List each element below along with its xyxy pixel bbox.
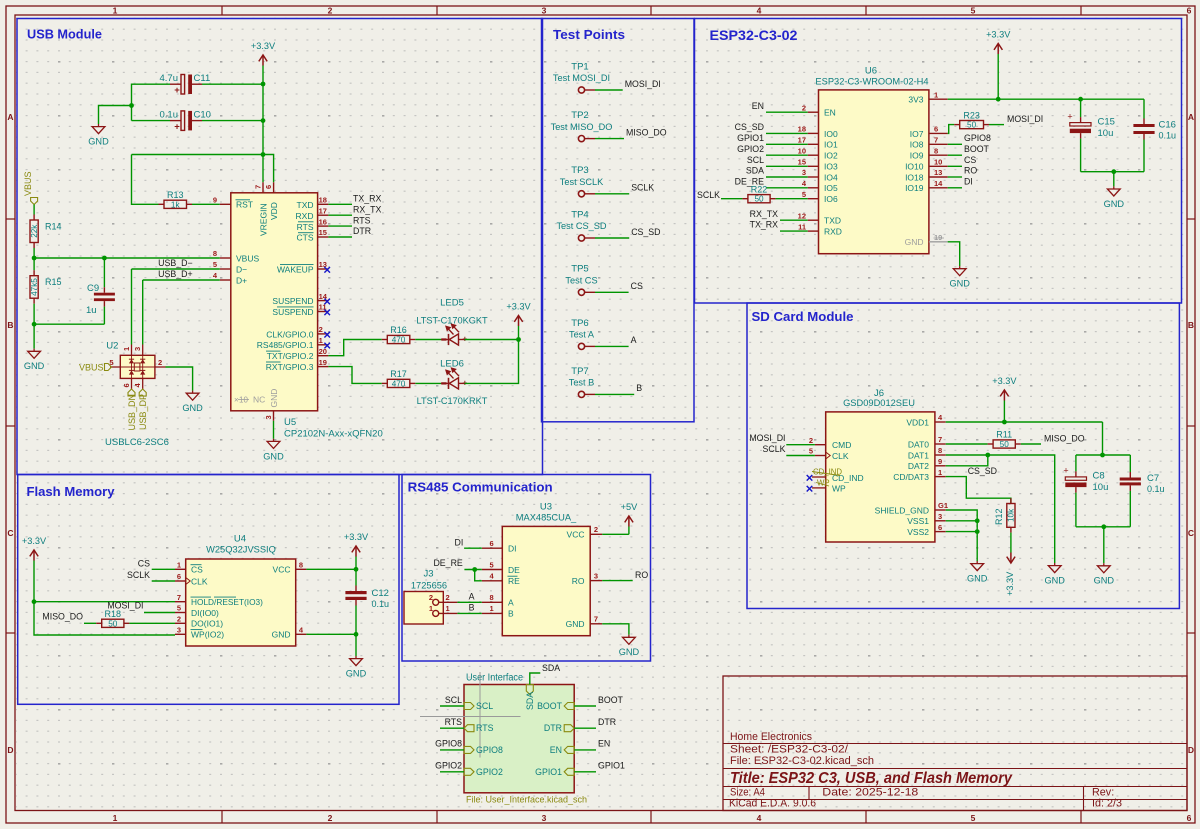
svg-text:+: + <box>1067 112 1072 122</box>
U2 part number <box>105 437 169 448</box>
svg-text:R15: R15 <box>45 277 62 287</box>
svg-text:VBUS: VBUS <box>23 171 33 196</box>
op-amp U3 MAX485CUA_ <box>502 502 590 636</box>
wire <box>946 477 1011 504</box>
svg-text:16: 16 <box>319 217 327 226</box>
svg-text:GND: GND <box>1044 576 1065 586</box>
crosshair <box>420 672 521 758</box>
svg-text:2: 2 <box>319 325 323 334</box>
svg-text:IO18: IO18 <box>905 172 924 182</box>
wire <box>328 367 381 384</box>
wire <box>776 198 808 200</box>
op-amp U5 CP2102N-Axx-xQFN20 <box>231 193 318 411</box>
svg-text:1u: 1u <box>86 305 97 316</box>
svg-text:CS_SD: CS_SD <box>968 466 997 476</box>
no-connect X <box>324 267 330 273</box>
svg-text:TXT/GPIO.2: TXT/GPIO.2 <box>267 351 314 361</box>
svg-text:ESP32-C3-WROOM-02-H4: ESP32-C3-WROOM-02-H4 <box>815 77 928 87</box>
svg-text:File: User_Interface.kicad_sch: File: User_Interface.kicad_sch <box>466 795 587 805</box>
wire <box>1081 171 1144 173</box>
svg-text:20: 20 <box>319 347 327 356</box>
U6 pins <box>798 90 948 242</box>
title block <box>723 676 1187 811</box>
op-amp U4 W25Q32JVSSIQ <box>186 534 296 647</box>
svg-text:CS: CS <box>631 281 643 291</box>
wire <box>129 622 175 624</box>
svg-text:50: 50 <box>108 619 118 628</box>
svg-text:IO9: IO9 <box>910 151 924 161</box>
svg-text:DO(IO1): DO(IO1) <box>191 619 223 629</box>
wire <box>152 568 175 570</box>
svg-text:6: 6 <box>1187 813 1192 823</box>
wire <box>530 673 541 685</box>
svg-text:Flash Memory: Flash Memory <box>27 484 116 499</box>
wire <box>1021 443 1041 445</box>
svg-text:DI(IO0): DI(IO0) <box>191 608 219 618</box>
svg-text:MAX485CUA_: MAX485CUA_ <box>516 512 577 522</box>
svg-text:1: 1 <box>122 347 131 351</box>
svg-text:SUSPEND: SUSPEND <box>272 307 313 317</box>
wire <box>1075 493 1077 527</box>
test point TP2 <box>551 110 613 142</box>
svg-text:CTS: CTS <box>297 233 314 243</box>
svg-text:GSD09D012SEU: GSD09D012SEU <box>843 398 915 408</box>
svg-text:D−: D− <box>236 264 247 274</box>
svg-text:RO: RO <box>572 576 585 586</box>
svg-text:WP(IO2): WP(IO2) <box>191 630 224 640</box>
svg-text:USB_D+: USB_D+ <box>158 269 192 279</box>
wire <box>415 339 441 341</box>
wire <box>1113 172 1115 187</box>
svg-text:TXD: TXD <box>297 200 314 210</box>
svg-text:U6: U6 <box>865 66 877 77</box>
svg-text:U2: U2 <box>106 341 118 352</box>
svg-text:Id: 2/3: Id: 2/3 <box>1092 797 1122 809</box>
wire <box>948 187 962 189</box>
svg-text:Date: 2025-12-18: Date: 2025-12-18 <box>822 786 918 798</box>
svg-text:3: 3 <box>938 512 942 521</box>
capacitor C8 10u <box>1063 466 1108 493</box>
svg-text:CS_SD: CS_SD <box>735 122 764 132</box>
svg-text:TP2: TP2 <box>571 110 588 121</box>
wire <box>262 155 264 183</box>
wire <box>166 367 193 391</box>
wire <box>440 727 464 729</box>
wire <box>1076 526 1130 528</box>
svg-text:VSS1: VSS1 <box>907 516 929 526</box>
svg-text:7: 7 <box>938 435 942 444</box>
svg-text:8: 8 <box>299 561 303 570</box>
svg-text:KiCad E.D.A. 9.0.6: KiCad E.D.A. 9.0.6 <box>729 797 816 809</box>
wire <box>1103 527 1105 563</box>
junction <box>129 103 134 108</box>
svg-text:1k: 1k <box>171 200 181 209</box>
svg-text:IO5: IO5 <box>824 183 838 193</box>
test point TP1 <box>553 61 610 93</box>
sheet pin DTR <box>544 723 574 733</box>
wire <box>306 568 356 570</box>
ground <box>1044 563 1065 586</box>
svg-text:+3.3V: +3.3V <box>344 532 369 542</box>
hierarchical label USB_DN (vertical) <box>127 389 137 431</box>
svg-text:SCL: SCL <box>445 695 462 705</box>
svg-text:Test CS: Test CS <box>565 276 597 286</box>
svg-text:R18: R18 <box>105 609 122 619</box>
svg-text:2: 2 <box>328 6 333 16</box>
svg-text:5: 5 <box>971 813 976 823</box>
svg-text:10: 10 <box>798 146 806 155</box>
wire <box>132 155 159 205</box>
svg-text:+3.3V: +3.3V <box>506 302 531 312</box>
svg-text:IO1: IO1 <box>824 140 838 150</box>
wire <box>328 214 352 216</box>
svg-text:TP5: TP5 <box>571 264 588 275</box>
svg-text:R14: R14 <box>45 222 62 232</box>
svg-text:GND: GND <box>619 647 640 657</box>
svg-text:User Interface: User Interface <box>466 673 524 684</box>
svg-text:GPIO1: GPIO1 <box>737 133 764 143</box>
svg-text:DTR: DTR <box>544 723 562 733</box>
svg-text:+: + <box>462 334 467 344</box>
svg-text:GPIO2: GPIO2 <box>435 761 462 771</box>
svg-text:SCLK: SCLK <box>127 570 150 580</box>
svg-text:VCC: VCC <box>273 565 291 575</box>
wire <box>948 143 962 145</box>
resistor R14 22k <box>30 205 62 259</box>
section box USB Module <box>17 19 543 475</box>
U5 reference <box>284 417 383 439</box>
U5 pins <box>213 182 329 420</box>
hierarchical label CD_IND (crossed) <box>812 468 842 477</box>
svg-text:SD Card Module: SD Card Module <box>752 309 854 324</box>
svg-text:2: 2 <box>594 525 598 534</box>
svg-text:6: 6 <box>938 523 942 532</box>
svg-text:2: 2 <box>429 593 433 602</box>
wire <box>144 612 175 614</box>
wire <box>989 124 1004 126</box>
svg-text:GND: GND <box>1094 576 1115 586</box>
svg-text:Test SCLK: Test SCLK <box>560 177 604 187</box>
svg-text:GND: GND <box>949 279 970 289</box>
wire <box>595 291 629 293</box>
svg-text:W25Q32JVSSIQ: W25Q32JVSSIQ <box>206 544 276 554</box>
wire <box>143 279 220 281</box>
svg-text:470: 470 <box>392 336 406 345</box>
svg-text:WAKEUP: WAKEUP <box>277 264 314 274</box>
svg-text:6: 6 <box>934 125 938 134</box>
svg-text:VCC: VCC <box>567 530 585 540</box>
svg-text:RE: RE <box>508 576 520 586</box>
ground <box>346 656 367 679</box>
svg-text:GPIO1: GPIO1 <box>598 761 625 771</box>
svg-text:2: 2 <box>809 436 813 445</box>
wire <box>766 132 808 134</box>
svg-text:1: 1 <box>938 468 942 477</box>
wire <box>946 455 1055 563</box>
svg-text:RO: RO <box>635 570 648 580</box>
svg-text:3: 3 <box>542 813 547 823</box>
wire <box>1143 99 1145 118</box>
test point TP5 <box>565 264 597 296</box>
J6 pins <box>809 413 948 532</box>
svg-text:2: 2 <box>328 813 333 823</box>
svg-text:SCL: SCL <box>747 155 764 165</box>
svg-text:GND: GND <box>967 574 988 584</box>
svg-text:14: 14 <box>934 179 943 188</box>
capacitor C10 <box>160 109 211 132</box>
svg-text:VDD1: VDD1 <box>906 417 929 427</box>
wire <box>766 187 808 189</box>
svg-text:CLK: CLK <box>191 576 208 586</box>
svg-text:22k: 22k <box>30 224 39 238</box>
svg-text:RX_TX: RX_TX <box>750 209 778 219</box>
wire <box>262 84 264 155</box>
svg-text:TXD: TXD <box>824 216 841 226</box>
svg-text:SDA: SDA <box>525 692 535 710</box>
wire <box>574 749 596 751</box>
wire <box>34 568 175 635</box>
svg-text:R23: R23 <box>963 110 980 120</box>
svg-text:18: 18 <box>798 125 806 134</box>
svg-text:9: 9 <box>938 457 942 466</box>
wire <box>355 634 357 656</box>
svg-text:GND: GND <box>346 669 367 679</box>
svg-text:10u: 10u <box>1098 128 1114 139</box>
wire <box>440 749 464 751</box>
svg-text:File: ESP32-C3-02.kicad_sch: File: ESP32-C3-02.kicad_sch <box>730 755 874 767</box>
resistor R17 <box>382 369 416 388</box>
wire <box>202 120 263 122</box>
svg-text:4.7u: 4.7u <box>160 73 179 84</box>
no-connect X <box>324 310 330 316</box>
wire <box>786 444 815 446</box>
wire <box>465 339 519 341</box>
svg-text:0.1u: 0.1u <box>372 599 390 609</box>
svg-text:IO19: IO19 <box>905 183 924 193</box>
wire <box>948 125 955 134</box>
wire <box>602 580 633 582</box>
wire <box>1080 139 1082 172</box>
sheet pin RTS <box>464 723 494 733</box>
svg-text:2: 2 <box>158 358 162 367</box>
svg-text:MISO_DO: MISO_DO <box>1044 433 1085 443</box>
junction <box>472 567 477 572</box>
test point TP4 <box>556 209 606 241</box>
svg-text:SDA: SDA <box>746 166 764 176</box>
svg-text:Test B: Test B <box>569 378 595 388</box>
svg-text:2: 2 <box>802 103 806 112</box>
wire <box>1080 99 1082 117</box>
svg-text:SUSPEND: SUSPEND <box>272 296 313 306</box>
wire <box>142 280 144 345</box>
svg-text:5: 5 <box>490 560 494 569</box>
svg-text:TP1: TP1 <box>571 61 588 72</box>
svg-text:TP6: TP6 <box>571 318 588 329</box>
capacitor C12 0.1u <box>345 588 389 609</box>
svg-text:USB_DP: USB_DP <box>138 394 148 430</box>
svg-text:7: 7 <box>934 136 938 145</box>
svg-text:50: 50 <box>967 121 977 130</box>
wire <box>202 83 263 85</box>
svg-text:GND: GND <box>269 389 279 408</box>
wire <box>786 455 815 457</box>
svg-text:IO6: IO6 <box>824 194 838 204</box>
junction <box>261 118 266 123</box>
svg-text:GND: GND <box>263 451 284 461</box>
wire <box>948 176 962 178</box>
svg-text:CLK: CLK <box>832 451 849 461</box>
wire <box>780 219 808 221</box>
svg-text:DTR: DTR <box>353 226 371 236</box>
svg-text:GPIO1: GPIO1 <box>535 767 562 777</box>
U4 pins <box>175 561 306 635</box>
capacitor C7 0.1u <box>1120 473 1165 494</box>
svg-text:GPIO8: GPIO8 <box>435 739 462 749</box>
svg-text:1: 1 <box>490 604 494 613</box>
wire <box>766 154 808 156</box>
svg-text:1: 1 <box>177 561 181 570</box>
wire <box>440 771 464 773</box>
svg-text:C12: C12 <box>372 588 389 599</box>
hierarchical label VBUS (vertical) <box>23 171 37 204</box>
resistor R23 50 <box>954 110 989 129</box>
svg-text:IO0: IO0 <box>824 129 838 139</box>
svg-text:R22: R22 <box>751 184 768 194</box>
svg-text:DAT0: DAT0 <box>908 439 929 449</box>
svg-text:TP3: TP3 <box>571 165 588 176</box>
wire <box>595 345 629 347</box>
svg-text:HOLD/RESET(IO3): HOLD/RESET(IO3) <box>191 597 263 607</box>
wire <box>946 455 988 466</box>
wire <box>306 633 356 635</box>
svg-text:3: 3 <box>542 6 547 16</box>
wire <box>475 570 482 581</box>
svg-text:MISO_DO: MISO_DO <box>42 612 83 622</box>
svg-text:D: D <box>7 745 13 755</box>
wire <box>84 622 96 624</box>
no-connect X <box>324 343 330 349</box>
junction <box>1002 420 1007 425</box>
wire <box>766 176 808 178</box>
no-connect X <box>807 486 813 492</box>
wire <box>152 580 175 582</box>
svg-text:RTS: RTS <box>297 222 314 232</box>
svg-text:USB Module: USB Module <box>27 27 102 42</box>
svg-text:U4: U4 <box>234 534 246 545</box>
svg-text:RO: RO <box>964 166 977 176</box>
wire <box>948 242 960 266</box>
svg-text:R13: R13 <box>167 190 184 200</box>
svg-text:SDA: SDA <box>542 663 560 673</box>
wire <box>721 198 742 200</box>
resistor R15 47k5 <box>30 258 62 324</box>
svg-text:USB_D−: USB_D− <box>158 258 192 268</box>
svg-text:15: 15 <box>319 228 327 237</box>
svg-text:IO2: IO2 <box>824 151 838 161</box>
svg-text:CLK/GPIO.0: CLK/GPIO.0 <box>266 329 314 339</box>
svg-text:0.1u: 0.1u <box>1147 484 1165 494</box>
svg-text:GPIO8: GPIO8 <box>476 745 503 755</box>
svg-text:VSS2: VSS2 <box>907 527 929 537</box>
wire <box>34 257 220 259</box>
wire <box>595 237 629 239</box>
svg-text:C: C <box>7 528 13 538</box>
svg-text:DE: DE <box>508 565 520 575</box>
svg-text:1: 1 <box>113 813 118 823</box>
svg-text:B: B <box>508 609 514 619</box>
test point TP7 <box>569 366 595 398</box>
wire <box>574 705 596 707</box>
power +5V <box>621 502 638 534</box>
svg-text:5: 5 <box>971 6 976 16</box>
wire <box>464 547 482 549</box>
wire <box>132 268 220 270</box>
wire <box>948 165 962 167</box>
svg-text:C7: C7 <box>1147 473 1159 484</box>
wire <box>440 705 464 707</box>
junction <box>1101 524 1106 529</box>
svg-text:USBLC6-2SC6: USBLC6-2SC6 <box>105 437 169 448</box>
power +3.3V <box>992 376 1017 422</box>
U3 pins <box>482 525 602 624</box>
svg-text:+3.3V: +3.3V <box>1005 571 1015 596</box>
svg-text:MOSI_DI: MOSI_DI <box>749 433 785 443</box>
wire <box>355 569 357 585</box>
junction <box>32 599 37 604</box>
svg-text:19: 19 <box>319 358 327 367</box>
svg-text:14: 14 <box>319 292 328 301</box>
svg-text:RS485/GPIO.1: RS485/GPIO.1 <box>257 340 314 350</box>
svg-text:19: 19 <box>934 233 942 242</box>
svg-text:CS: CS <box>138 559 150 569</box>
svg-text:BOOT: BOOT <box>964 144 990 154</box>
wire <box>1143 140 1145 172</box>
svg-text:RTS: RTS <box>476 723 494 733</box>
wire <box>946 520 978 522</box>
svg-text:WP: WP <box>832 484 846 494</box>
svg-text:1: 1 <box>319 336 323 345</box>
svg-text:3: 3 <box>802 168 806 177</box>
wire <box>1076 454 1130 456</box>
svg-text:50: 50 <box>1000 440 1010 449</box>
hierarchical label VBUS at U2 <box>79 363 112 373</box>
svg-text:3: 3 <box>264 415 273 419</box>
svg-text:B: B <box>1188 320 1194 330</box>
junction <box>985 453 990 458</box>
svg-text:IO7: IO7 <box>910 129 924 139</box>
capacitor C16 0.1u <box>1133 120 1176 141</box>
svg-text:RTS: RTS <box>353 215 371 225</box>
junction <box>975 529 980 534</box>
wire <box>132 155 274 183</box>
sheet User Interface <box>464 673 587 805</box>
svg-text:1: 1 <box>446 604 450 613</box>
section box Test Points <box>542 19 695 422</box>
svg-text:IO8: IO8 <box>910 140 924 150</box>
svg-text:18: 18 <box>319 196 327 205</box>
capacitor C11 <box>160 73 211 96</box>
svg-text:VBUS: VBUS <box>236 254 259 264</box>
svg-text:10: 10 <box>934 158 942 167</box>
no-connect X <box>807 475 813 481</box>
svg-text:GND: GND <box>272 630 291 640</box>
wire <box>1102 422 1104 455</box>
svg-text:D: D <box>1188 745 1194 755</box>
svg-text:EN: EN <box>824 107 836 117</box>
svg-text:SCLK: SCLK <box>763 444 786 454</box>
wire <box>1129 455 1131 472</box>
svg-text:2: 2 <box>177 615 181 624</box>
